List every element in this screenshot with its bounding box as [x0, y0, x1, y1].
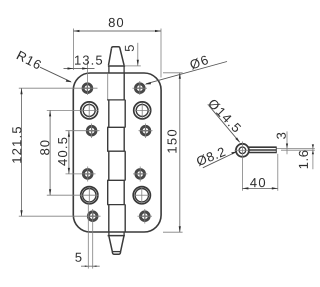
diameter label D14.5: [207, 98, 241, 143]
top finial: [108, 47, 125, 73]
radius label R16: [16, 51, 72, 83]
dimension 40.5: [58, 131, 70, 174]
diameter label D8.2: [196, 147, 238, 168]
big hole L5: [81, 187, 98, 204]
screw hole R4: [136, 170, 145, 179]
dimension 40: [242, 154, 277, 191]
detail view: pin head outer circle: [236, 144, 249, 157]
detail view: head crosshair: [235, 142, 251, 159]
big hole R5: [133, 187, 150, 204]
screw hole L3: [87, 126, 96, 135]
screw hole L6: [88, 212, 97, 221]
dimension 150: [163, 73, 183, 232]
big hole R2: [134, 102, 151, 119]
screw hole L4: [83, 170, 92, 179]
dimension 5 top: [125, 43, 141, 66]
screw hole L1: [83, 84, 92, 93]
detail view: pin stub lines: [277, 149, 315, 151]
knuckle barrel: [107, 73, 125, 231]
dimension 5 bottom: [75, 253, 99, 267]
dimension 80 left: [40, 110, 51, 195]
dimension 3: [277, 131, 289, 154]
big hole L2: [81, 102, 98, 119]
screw hole R6: [140, 212, 149, 221]
detail view: shaft: [248, 147, 276, 154]
screw hole R1: [135, 84, 144, 93]
bottom finial: [108, 232, 125, 254]
dimension 121.5: [12, 88, 22, 216]
crosshair lines right leaf: [133, 81, 153, 224]
screw hole R3: [141, 126, 150, 135]
dimension 80 top: [73, 18, 161, 78]
hinge body outline: [73, 73, 161, 232]
diameter label D6: [145, 55, 227, 85]
dimension 13.5: [64, 56, 103, 70]
dimension 1.6: [299, 144, 314, 169]
crosshair lines left leaf: [19, 62, 101, 269]
